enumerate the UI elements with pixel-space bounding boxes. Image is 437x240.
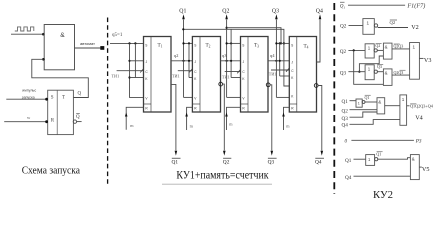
- svg-text:Q2: Q2: [222, 9, 229, 15]
- wire input R of U2: [4, 121, 48, 123]
- svg-text:Q2: Q2: [342, 109, 349, 115]
- dynamic input slash C4: [286, 68, 289, 72]
- gate AND (V4 group): [377, 98, 385, 114]
- svg-text:автомат: автомат: [80, 41, 95, 46]
- wire Q1 riser to top: [182, 14, 185, 61]
- svg-text:Q1: Q1: [376, 151, 381, 156]
- gate NOT (V5 group): [366, 155, 378, 166]
- wire to V2: [378, 27, 408, 29]
- wire C3 clock: [225, 71, 241, 73]
- wire branch B3 (S to K of T3, up to top link): [230, 29, 232, 77]
- svg-text:1: 1: [367, 20, 370, 25]
- svg-text:Q2Q3: Q2Q3: [394, 70, 404, 75]
- svg-text:КУ2: КУ2: [373, 189, 393, 201]
- svg-text:Q3: Q3: [340, 70, 347, 76]
- wire AND1 out to OR: [392, 48, 410, 50]
- wire S3: [227, 42, 241, 44]
- inversion bubble on U2 inverse output: [73, 120, 76, 123]
- svg-text:ТИ1: ТИ1: [222, 74, 230, 79]
- label inverse Q2 on wire: [390, 20, 398, 25]
- wire m reset T1: [125, 107, 144, 129]
- wire inverse Q1 down: [171, 84, 177, 155]
- svg-text:КУ1+память=счетчик: КУ1+память=счетчик: [176, 169, 269, 182]
- svg-text:1: 1: [413, 45, 416, 50]
- svg-text:Q2: Q2: [390, 20, 396, 25]
- label inverse Q4: [315, 158, 324, 165]
- flip-flop T4: [289, 37, 316, 113]
- wire V5 out: [419, 166, 422, 168]
- svg-text:&: &: [60, 32, 65, 39]
- svg-text:S: S: [291, 43, 293, 47]
- gate AND2 (V3 group): [383, 69, 392, 86]
- svg-text:S: S: [145, 43, 147, 47]
- svg-text:q4: q4: [270, 53, 275, 58]
- dynamic input slash C3: [237, 70, 240, 74]
- wire start pulse input S: [6, 98, 47, 100]
- svg-text:Q4: Q4: [315, 160, 322, 166]
- svg-text:0: 0: [345, 138, 348, 144]
- underline of caption: [162, 183, 272, 185]
- wire AND out to OR (V4): [385, 105, 400, 107]
- dynamic input slash C2: [189, 69, 192, 73]
- wire Q2 riser to top: [225, 14, 228, 61]
- wire S4: [276, 42, 289, 44]
- label inverse Q2: [223, 158, 232, 165]
- wire J1: [130, 60, 144, 62]
- svg-text:Q2: Q2: [340, 24, 347, 30]
- wire Q2 to NOT: [348, 49, 365, 51]
- wire m reset T4: [282, 107, 289, 130]
- wire Q2 to AND (V4): [350, 109, 378, 111]
- terminal square on output: [100, 46, 104, 50]
- wire branch to T1 pins: [130, 43, 144, 97]
- svg-text:Q4: Q4: [345, 175, 352, 181]
- svg-text:Q4: Q4: [316, 9, 323, 15]
- wire U2 inverse output stub: [77, 121, 82, 123]
- wire NOT to AND2: [377, 71, 383, 73]
- svg-text:Q4: Q4: [342, 123, 349, 129]
- wire V4 out: [407, 105, 410, 107]
- wire V3 out: [419, 57, 423, 59]
- svg-text:ТИ1: ТИ1: [269, 72, 277, 77]
- wire Q4 to OR (V4): [350, 120, 400, 125]
- wire branch A3 (Q2 net down to V pin of T3): [226, 61, 228, 98]
- separator dashed line right: [333, 3, 335, 194]
- svg-text:P3: P3: [415, 138, 422, 144]
- svg-text:q2: q2: [174, 53, 179, 58]
- svg-text:V5: V5: [422, 166, 430, 173]
- label inverse Q1 (row F1): [340, 2, 346, 9]
- wire inverse Q4 down: [318, 86, 323, 156]
- wire K3: [231, 77, 240, 79]
- svg-text:F1(F7): F1(F7): [406, 2, 425, 9]
- gate NOT (lower, V3 group): [365, 65, 377, 80]
- wire branch B2 (S to K of T2): [188, 43, 190, 77]
- wire Q3 output to T4: [268, 60, 289, 62]
- gate AND V5: [410, 155, 419, 180]
- label start pulse: [22, 89, 37, 100]
- wire K4: [280, 75, 290, 77]
- wire m reset T3: [225, 107, 240, 130]
- svg-text:Q1: Q1: [172, 160, 179, 166]
- svg-text:Q3: Q3: [272, 9, 279, 15]
- svg-text:ТИ1: ТИ1: [112, 74, 120, 79]
- label inverse Q1 (V4 group): [365, 95, 371, 100]
- gate U1 AND: [44, 25, 74, 70]
- svg-text:q5=1: q5=1: [112, 33, 123, 38]
- gate NOT (V2 row): [363, 19, 378, 35]
- svg-text:T: T: [62, 96, 65, 101]
- wire AND2 out to OR: [392, 74, 410, 76]
- svg-text:S: S: [194, 43, 196, 47]
- svg-text:Q3: Q3: [268, 160, 275, 166]
- svg-text:запуска: запуска: [22, 95, 35, 99]
- wire U1 output: [75, 47, 102, 49]
- label Q2Q3bar (AND2 out): [394, 70, 406, 75]
- inversion bubble T4: [314, 84, 318, 88]
- wire Q4 output riser: [317, 14, 322, 62]
- svg-text:Q1: Q1: [179, 9, 186, 15]
- wire m reset T2: [185, 107, 192, 130]
- svg-text:Q3: Q3: [342, 116, 349, 122]
- svg-text:Q: Q: [76, 115, 80, 120]
- wire K1: [130, 77, 144, 79]
- separator dashed line left: [107, 18, 109, 187]
- inversion bubble T2: [219, 82, 223, 86]
- wire top link 2 to S4: [182, 28, 289, 86]
- wire Q3 to AND1 lower input: [359, 56, 383, 72]
- wire Q1 output to T2: [171, 60, 192, 62]
- svg-text:импульс: импульс: [22, 89, 36, 93]
- wire Q3 to NOT: [348, 71, 365, 73]
- svg-text:Q2Q3: Q2Q3: [394, 44, 404, 49]
- wire Q1 to NOT (V5): [354, 158, 366, 160]
- svg-text:Q: Q: [78, 92, 82, 97]
- wire K2: [189, 77, 192, 79]
- gate NOT (V4 group): [356, 99, 365, 107]
- label inverse Q3 (small): [377, 64, 383, 69]
- svg-text:Схема запуска: Схема запуска: [22, 165, 80, 177]
- wire NOT to AND (V4): [365, 101, 377, 103]
- label inverse Q1: [172, 158, 181, 165]
- svg-text:Q2: Q2: [340, 49, 347, 55]
- wire branch B4 (S to K of T4): [279, 43, 281, 76]
- clock waveform symbol: [15, 27, 34, 31]
- wire clock to U1: [11, 33, 44, 35]
- wire NOT to AND (V5): [378, 158, 411, 160]
- wire Q3 to AND (V4): [350, 112, 378, 117]
- svg-text:Q3: Q3: [377, 64, 382, 69]
- svg-text:Q1: Q1: [365, 95, 370, 100]
- svg-text:Q2: Q2: [223, 160, 230, 166]
- svg-text:V4: V4: [415, 114, 423, 121]
- wire F1: [348, 4, 405, 6]
- wire inverse Q2 down: [223, 84, 226, 156]
- svg-text:Q1: Q1: [342, 99, 349, 105]
- wire C1 clock: [117, 70, 144, 72]
- svg-text:&: &: [378, 99, 381, 104]
- wire Q2 to AND2 lower input: [354, 50, 384, 84]
- wire C2 clock: [178, 70, 193, 72]
- gate OR (V4): [400, 95, 407, 125]
- wire branch A4 (Q3 net down to V pin of T4): [275, 61, 277, 98]
- wire branch A2 (Q1 net down to V pin of T2): [183, 61, 185, 98]
- svg-text:&: &: [385, 71, 388, 76]
- label inverse Q2 (small): [375, 43, 381, 48]
- junction dot at U1 input 2: [42, 58, 45, 61]
- svg-text:Q1: Q1: [345, 158, 352, 164]
- flip-flop T3: [241, 37, 269, 113]
- svg-text:Q1Q2Q3+Q4: Q1Q2Q3+Q4: [410, 104, 434, 109]
- svg-text:Q1: Q1: [340, 5, 346, 10]
- wire Q2 to inverter: [349, 25, 363, 27]
- svg-text:&: &: [385, 45, 388, 50]
- gate AND1 (V3 group): [383, 43, 392, 59]
- wire P3: [351, 139, 414, 141]
- flip-flop T1: [144, 37, 172, 113]
- wire Q2 output to T3: [221, 60, 241, 62]
- svg-text:ТИ1: ТИ1: [172, 74, 180, 79]
- wire Q4 to AND (V5): [354, 175, 411, 177]
- svg-text:S: S: [51, 96, 54, 101]
- junction dot at U1 input 1: [42, 33, 45, 36]
- wire NOT to AND1: [377, 49, 383, 51]
- wire feedback loop from U2 Q to U1 input 2: [32, 59, 89, 97]
- wire q5 input: [110, 42, 144, 44]
- label Q2Q3 (AND1 out): [394, 44, 404, 49]
- svg-text:&: &: [412, 156, 415, 161]
- svg-text:V2: V2: [411, 24, 419, 31]
- flip-flop U2 (SR trigger): [48, 90, 74, 134]
- label Q1Q2Q3+Q4: [410, 104, 434, 109]
- svg-text:1: 1: [358, 102, 360, 106]
- svg-text:Q2: Q2: [375, 43, 380, 48]
- flip-flop T2: [192, 37, 220, 113]
- svg-text:S: S: [242, 43, 244, 47]
- wire Q3 riser to top: [275, 14, 278, 61]
- dynamic input slash C1: [140, 69, 143, 73]
- wire inverse Q3 down: [270, 85, 273, 156]
- wire Q1 to small NOT: [350, 100, 357, 102]
- svg-text:V3: V3: [424, 57, 432, 64]
- wire C4 clock: [271, 69, 289, 71]
- gate NOT (upper, V3 group): [365, 44, 377, 58]
- inversion bubble T3: [266, 83, 270, 87]
- label inverse Q of U2: [76, 114, 80, 121]
- gate OR (V3): [410, 43, 420, 80]
- label inverse Q3: [268, 158, 277, 165]
- label inverse Q1 (V5 group): [376, 151, 382, 156]
- wire top link Q2 to T4: [227, 28, 281, 44]
- svg-text:1: 1: [402, 97, 405, 102]
- wire S2: [184, 42, 193, 44]
